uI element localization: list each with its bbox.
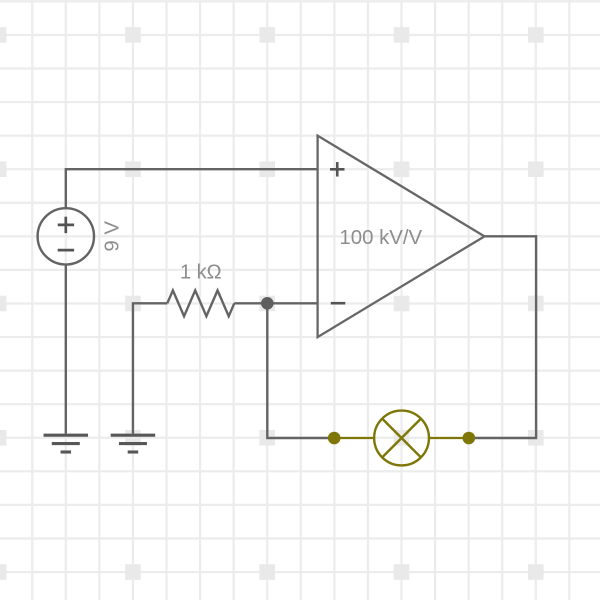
voltage source plus sign xyxy=(58,217,74,250)
lamp L1 lead right (olive) xyxy=(429,437,469,439)
ground GND2 xyxy=(111,435,156,452)
svg-text:9 V: 9 V xyxy=(101,221,123,252)
wire: junction down and right to lamp left terminal xyxy=(267,303,334,438)
svg-text:100 kV/V: 100 kV/V xyxy=(339,227,422,249)
lamp terminal dot right xyxy=(463,432,476,445)
wire: source bottom to ground xyxy=(65,264,67,433)
wire: op-amp output to right then down to lamp right terminal xyxy=(469,236,536,438)
op-amp U1 triangle xyxy=(318,136,485,337)
ground GND1 xyxy=(44,435,89,452)
wire top: source to op-amp + input xyxy=(66,169,318,208)
wire: resistor right to op-amp - input xyxy=(234,302,317,304)
svg-text:1 kΩ: 1 kΩ xyxy=(180,261,222,283)
resistor R1 zigzag xyxy=(167,290,234,316)
lamp L1 X cross xyxy=(382,419,421,458)
lamp terminal dot left xyxy=(328,432,341,445)
junction node dot xyxy=(261,297,274,310)
op-amp minus input marker xyxy=(331,302,346,305)
lamp L1 circle xyxy=(374,411,429,466)
wire: resistor left corner down to ground xyxy=(133,303,167,433)
lamp L1 lead left (olive) xyxy=(334,437,374,439)
op-amp plus input marker xyxy=(330,162,345,303)
voltage source minus sign xyxy=(58,249,74,252)
voltage source V1 circle xyxy=(38,208,94,264)
